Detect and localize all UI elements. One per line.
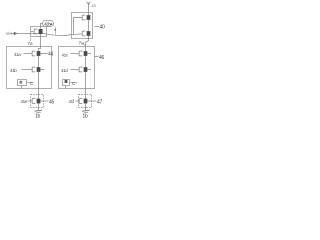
svg-text:41d: 41d xyxy=(61,68,68,73)
wire gate stub xyxy=(31,31,34,33)
transistor Q1 top of box 40 xyxy=(82,15,85,20)
svg-text:7a: 7a xyxy=(28,41,34,46)
wire box 44 to box 45 xyxy=(38,89,40,95)
transistor T6 41f xyxy=(79,99,82,104)
svg-text:44: 44 xyxy=(48,52,53,58)
svg-text:46: 46 xyxy=(99,55,104,61)
label 40 xyxy=(95,26,100,28)
wire gate branch xyxy=(74,18,83,35)
transistor T1 41a xyxy=(32,51,35,56)
box 40 xyxy=(72,13,93,39)
svg-text:45: 45 xyxy=(49,99,54,105)
ground right xyxy=(82,110,90,111)
label 44 xyxy=(40,53,48,55)
label 45 xyxy=(40,100,48,102)
svg-text:41e: 41e xyxy=(21,99,28,104)
wire Q1 drain to top xyxy=(88,13,90,16)
svg-text:1a: 1a xyxy=(91,3,96,8)
wire box 46 to box 47 xyxy=(85,89,87,95)
box 45 dashed xyxy=(31,95,44,108)
wire T4 source down xyxy=(85,72,87,89)
wire drain stub up xyxy=(40,27,42,30)
svg-text:40: 40 xyxy=(100,24,105,30)
wire between Q1 Q2 xyxy=(88,20,90,31)
node dot xyxy=(54,29,56,31)
transistor T3 41c xyxy=(79,51,82,56)
wire oval lead right xyxy=(54,27,56,35)
wire feed into T1 xyxy=(39,47,41,52)
svg-text:41a: 41a xyxy=(14,52,21,57)
power terminal xyxy=(88,3,90,13)
capacitor C2 xyxy=(63,80,70,86)
svg-text:41c: 41c xyxy=(62,53,69,58)
svg-text:1b: 1b xyxy=(83,114,88,120)
oval 42b xyxy=(43,21,54,27)
capacitor C1 xyxy=(18,80,27,86)
ground left xyxy=(35,110,43,111)
wire oval lead left xyxy=(41,24,43,27)
box 46 xyxy=(59,47,95,89)
transistor T4 41d xyxy=(79,67,82,72)
wire T3 bulk tick xyxy=(87,53,91,55)
node input arrowhead xyxy=(14,32,18,35)
wire feed into T3 xyxy=(85,47,87,52)
box input transistor 42 xyxy=(31,27,47,37)
box 44 xyxy=(7,47,52,89)
transistor T2 41b xyxy=(32,67,35,72)
svg-text:42b: 42b xyxy=(44,22,51,27)
svg-text:1b: 1b xyxy=(35,114,40,120)
transistor Q2 bottom of box 40 xyxy=(82,31,85,36)
label 46 xyxy=(95,56,99,58)
wire input horizontal xyxy=(10,33,82,35)
wire Q2 source down to box 46 xyxy=(86,36,89,47)
svg-text:47: 47 xyxy=(97,99,102,105)
transistor 42 input xyxy=(34,29,37,34)
wire between T1 T2 xyxy=(38,56,40,67)
transistor T5 41e xyxy=(32,99,35,104)
wire T2 bulk tick xyxy=(40,69,44,71)
svg-text:41b: 41b xyxy=(10,68,17,73)
wire T2 source down xyxy=(38,72,40,89)
wire between T3 T4 xyxy=(85,56,87,67)
box 47 dashed xyxy=(79,95,92,108)
wire T4 bulk tick xyxy=(87,69,91,71)
wire feed down to box 44 xyxy=(40,34,42,47)
label 47 xyxy=(87,100,96,102)
